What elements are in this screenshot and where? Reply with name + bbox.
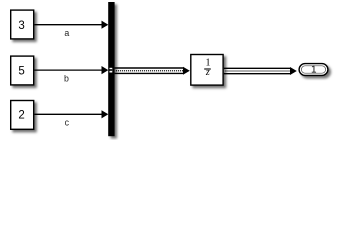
svg-text:a: a: [64, 28, 69, 38]
svg-text:c: c: [65, 118, 70, 128]
svg-text:2: 2: [18, 110, 24, 122]
svg-text:3: 3: [18, 20, 24, 32]
svg-text:z: z: [205, 67, 210, 78]
svg-text:5: 5: [18, 65, 24, 77]
svg-text:b: b: [64, 73, 69, 83]
svg-text:1: 1: [311, 64, 317, 75]
